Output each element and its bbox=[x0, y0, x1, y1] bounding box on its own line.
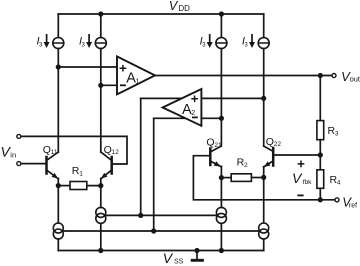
current source I3a circle bbox=[53, 38, 64, 49]
node junction Q12 emitter bbox=[98, 183, 103, 188]
wire A1 output to Vout bbox=[155, 75, 332, 77]
wire output node down to R3 bbox=[319, 76, 321, 121]
svg-text:DD: DD bbox=[178, 4, 190, 13]
svg-text:1: 1 bbox=[79, 170, 83, 177]
op-amp A1 - sign bbox=[121, 84, 125, 86]
transistor Q11 bbox=[47, 152, 59, 186]
op-amp A2 (points left, drawn over wires) bbox=[163, 89, 202, 126]
node junction Vref bbox=[318, 197, 323, 202]
svg-text:out: out bbox=[350, 75, 360, 84]
current source B3 double circle bbox=[216, 207, 226, 217]
wire A1 inverting input from Q12 collector bbox=[101, 84, 117, 86]
node junction VSS rail at ground bbox=[194, 248, 199, 253]
current source I3c circle bbox=[216, 38, 227, 49]
wire from VDD rail to current source I3c bbox=[220, 14, 222, 38]
node junction Q11 emitter bbox=[56, 183, 61, 188]
wire Q22 base to Vfbk node bbox=[273, 154, 320, 156]
wire VDD top rail bbox=[58, 13, 263, 15]
ground symbol bbox=[192, 251, 202, 261]
svg-text:in: in bbox=[10, 150, 16, 159]
wire Q11 emitter down to tail current source B1 bbox=[57, 186, 59, 223]
Vfbk - sign bbox=[298, 194, 302, 196]
node junction A2 - input at Q21 collector bbox=[219, 116, 224, 121]
svg-text:fbk: fbk bbox=[303, 179, 312, 186]
current source B1 double circle bbox=[53, 223, 63, 233]
transistor Q12 (mirrored) bbox=[101, 152, 112, 186]
node junction at R3 top on output line bbox=[318, 73, 323, 78]
wire current source I3c to Q21 collector bbox=[220, 49, 222, 145]
node junction VSS rail at X2 bbox=[98, 248, 103, 253]
wire R4 to Vref node bbox=[319, 188, 321, 200]
node junction on bias line 2 bbox=[151, 228, 156, 233]
transistor Q22 (mirrored) bbox=[264, 146, 274, 177]
wire A2 + input line (passes under A2) to Q22 collector bbox=[141, 97, 264, 99]
wire current source I3d to Q22 collector bbox=[263, 49, 265, 147]
resistor R4 body bbox=[317, 170, 324, 189]
wire Vref node to terminal bbox=[320, 199, 334, 201]
current source I3b circle bbox=[95, 38, 106, 49]
wire Q12 emitter down to tail current source B2 bbox=[100, 186, 102, 208]
svg-text:21: 21 bbox=[214, 142, 222, 149]
arrow for current source I3d bbox=[249, 35, 255, 48]
op-amp A1 bbox=[117, 56, 155, 94]
svg-text:2: 2 bbox=[244, 162, 248, 169]
svg-text:12: 12 bbox=[112, 149, 120, 156]
node junction A2 + input at Q22 collector bbox=[261, 96, 266, 101]
wire current source B4 to VSS rail bbox=[263, 239, 265, 251]
arrow for current source I3a bbox=[44, 35, 50, 48]
svg-text:SS: SS bbox=[174, 259, 184, 266]
node junction on VDD rail at X3 bbox=[219, 11, 224, 16]
node junction Q21 emitter bbox=[219, 175, 224, 180]
svg-text:2: 2 bbox=[191, 110, 195, 117]
current source B4 double circle bbox=[259, 223, 269, 233]
terminal Vout circle bbox=[332, 74, 336, 78]
current source B2 double circle bbox=[96, 207, 106, 217]
wire from VDD rail to current source I3a bbox=[57, 14, 59, 38]
wire R2 to Q22 emitter bbox=[251, 177, 263, 179]
svg-text:Q: Q bbox=[43, 144, 51, 156]
wire Q21 base loop to Vref node bbox=[193, 156, 320, 200]
node junction on VDD rail at X2 bbox=[98, 11, 103, 16]
terminal Vin- circle bbox=[17, 162, 21, 166]
resistor R1 body bbox=[70, 182, 87, 190]
svg-text:Q: Q bbox=[206, 136, 214, 148]
svg-text:22: 22 bbox=[274, 141, 282, 148]
wire current source B1 to VSS rail bbox=[57, 239, 59, 251]
op-amp A1 + sign bbox=[120, 66, 125, 71]
terminal Vref circle bbox=[335, 198, 339, 202]
wire from VDD rail to current source I3b bbox=[100, 14, 102, 38]
op-amp A2 - sign bbox=[193, 116, 197, 118]
svg-text:ref: ref bbox=[349, 203, 357, 210]
wire Q11 emitter to R1 bbox=[58, 185, 70, 187]
wire R3 to Vfbk node bbox=[319, 140, 321, 170]
arrow for current source I3b bbox=[86, 35, 92, 48]
arrow for current source I3c bbox=[207, 35, 213, 48]
svg-text:11: 11 bbox=[51, 149, 58, 156]
svg-text:1: 1 bbox=[136, 78, 140, 85]
wire current source I3b to Q12 collector bbox=[100, 49, 102, 153]
terminal Vin+ circle bbox=[17, 134, 21, 138]
wire from VDD rail down to current source I3d bbox=[263, 14, 265, 38]
wire Vin- terminal to Q11 base bbox=[21, 163, 46, 165]
wire R1 to Q12 emitter bbox=[87, 185, 101, 187]
transistor Q21 bbox=[210, 146, 221, 178]
svg-text:Q: Q bbox=[104, 144, 112, 156]
resistor R2 body bbox=[231, 174, 251, 182]
node junction at Q12 collector / A1 - input bbox=[98, 83, 103, 88]
wire current source B3 to VSS rail bbox=[220, 223, 222, 250]
wire A2 + side down to bias line 1 bbox=[140, 98, 142, 215]
node junction Vfbk (R3-R4) bbox=[318, 152, 323, 157]
wire A2 - input line (passes under A2) to Q21 collector bbox=[154, 117, 222, 119]
wire bias line 2 between B1 and B4 bbox=[62, 230, 259, 232]
op-amp A2 + sign bbox=[192, 96, 197, 101]
wire current source I3a to Q11 collector bbox=[57, 49, 59, 153]
svg-text:Q: Q bbox=[266, 136, 274, 148]
wire Vin+ terminal to Q12 base loop bbox=[21, 136, 127, 164]
node junction VSS rail at X3 bbox=[219, 248, 224, 253]
wire VSS bottom rail bbox=[58, 250, 263, 252]
svg-text:4: 4 bbox=[337, 179, 341, 186]
wire current source B2 to VSS rail bbox=[100, 223, 102, 250]
current source I3d circle bbox=[258, 38, 269, 49]
wire A1 noninverting input from Q11 collector bbox=[58, 66, 117, 68]
node junction on bias line 1 bbox=[138, 213, 143, 218]
svg-text:V: V bbox=[163, 250, 174, 266]
node junction Q22 emitter bbox=[261, 175, 266, 180]
wire Q21 emitter down to current source B3 bbox=[220, 178, 222, 208]
resistor R3 body bbox=[317, 121, 324, 140]
Vfbk + sign bbox=[298, 161, 303, 166]
wire bias line 1 between B2 and B3 bbox=[105, 214, 218, 216]
wire A2 - side down to bias line 2 bbox=[153, 118, 155, 231]
wire Q22 emitter down to current source B4 bbox=[263, 177, 265, 223]
svg-text:3: 3 bbox=[335, 131, 339, 138]
wire Q21 emitter to R2 bbox=[221, 177, 231, 179]
node junction at Q11 collector / A1 + input bbox=[56, 64, 61, 69]
